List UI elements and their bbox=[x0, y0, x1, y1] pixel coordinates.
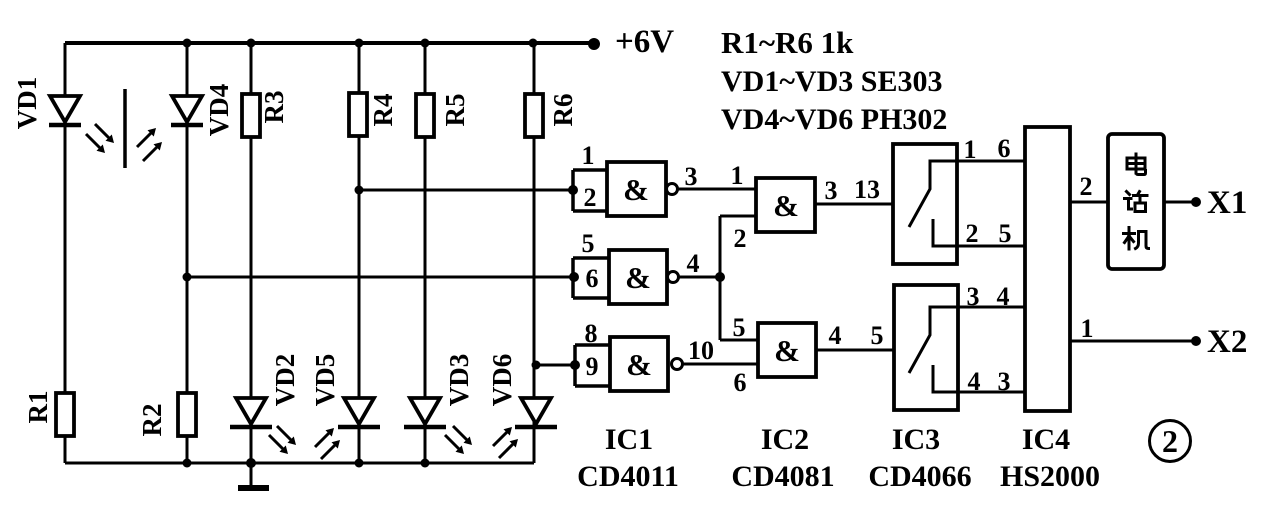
svg-text:+6V: +6V bbox=[615, 24, 674, 60]
svg-text:5: 5 bbox=[733, 313, 746, 342]
svg-text:R6: R6 bbox=[548, 94, 578, 127]
svg-text:2: 2 bbox=[966, 219, 979, 248]
svg-text:VD6: VD6 bbox=[487, 354, 517, 407]
svg-text:3: 3 bbox=[998, 367, 1011, 396]
svg-text:&: & bbox=[623, 172, 649, 207]
svg-text:6: 6 bbox=[734, 368, 747, 397]
svg-text:5: 5 bbox=[999, 219, 1012, 248]
svg-text:R5: R5 bbox=[440, 94, 470, 127]
svg-text:5: 5 bbox=[582, 229, 595, 258]
svg-text:R4: R4 bbox=[368, 94, 398, 127]
svg-text:1: 1 bbox=[964, 135, 977, 164]
svg-text:CD4081: CD4081 bbox=[731, 460, 834, 493]
svg-text:IC2: IC2 bbox=[761, 423, 809, 456]
svg-text:8: 8 bbox=[585, 319, 598, 348]
svg-text:4: 4 bbox=[829, 321, 842, 350]
svg-text:5: 5 bbox=[871, 321, 884, 350]
svg-text:1: 1 bbox=[731, 161, 744, 190]
svg-text:CD4066: CD4066 bbox=[868, 460, 971, 493]
svg-text:2: 2 bbox=[1080, 172, 1093, 201]
svg-text:VD4: VD4 bbox=[204, 84, 234, 137]
svg-text:13: 13 bbox=[854, 175, 880, 204]
svg-text:2: 2 bbox=[584, 183, 597, 212]
svg-text:R2: R2 bbox=[137, 404, 167, 437]
svg-text:1: 1 bbox=[582, 141, 595, 170]
svg-text:VD1~VD3 SE303: VD1~VD3 SE303 bbox=[721, 65, 942, 98]
svg-text:1: 1 bbox=[1081, 314, 1094, 343]
svg-text:CD4011: CD4011 bbox=[577, 460, 679, 493]
svg-text:R1~R6 1k: R1~R6 1k bbox=[721, 25, 854, 60]
svg-text:6: 6 bbox=[586, 264, 599, 293]
svg-text:4: 4 bbox=[687, 249, 700, 278]
svg-text:R1: R1 bbox=[23, 391, 53, 424]
svg-text:VD2: VD2 bbox=[270, 354, 300, 407]
svg-text:IC3: IC3 bbox=[892, 423, 940, 456]
svg-text:&: & bbox=[626, 347, 652, 382]
svg-text:X2: X2 bbox=[1207, 324, 1247, 360]
svg-text:3: 3 bbox=[825, 176, 838, 205]
svg-text:R3: R3 bbox=[259, 91, 289, 124]
svg-text:IC4: IC4 bbox=[1022, 423, 1070, 456]
svg-text:3: 3 bbox=[685, 162, 698, 191]
svg-text:3: 3 bbox=[967, 282, 980, 311]
svg-text:4: 4 bbox=[968, 367, 981, 396]
svg-text:VD3: VD3 bbox=[444, 354, 474, 407]
svg-text:4: 4 bbox=[997, 282, 1010, 311]
svg-text:VD5: VD5 bbox=[310, 354, 340, 407]
svg-text:VD1: VD1 bbox=[12, 77, 42, 130]
svg-text:9: 9 bbox=[586, 352, 599, 381]
svg-text:&: & bbox=[625, 260, 651, 295]
svg-text:2: 2 bbox=[734, 224, 747, 253]
svg-text:2: 2 bbox=[1162, 423, 1178, 459]
svg-text:HS2000: HS2000 bbox=[1000, 460, 1100, 493]
svg-text:IC1: IC1 bbox=[605, 423, 653, 456]
svg-text:10: 10 bbox=[688, 336, 714, 365]
svg-text:VD4~VD6 PH302: VD4~VD6 PH302 bbox=[721, 103, 947, 136]
svg-text:6: 6 bbox=[998, 134, 1011, 163]
svg-text:&: & bbox=[774, 333, 800, 368]
svg-text:&: & bbox=[773, 188, 799, 223]
svg-text:X1: X1 bbox=[1207, 185, 1247, 221]
